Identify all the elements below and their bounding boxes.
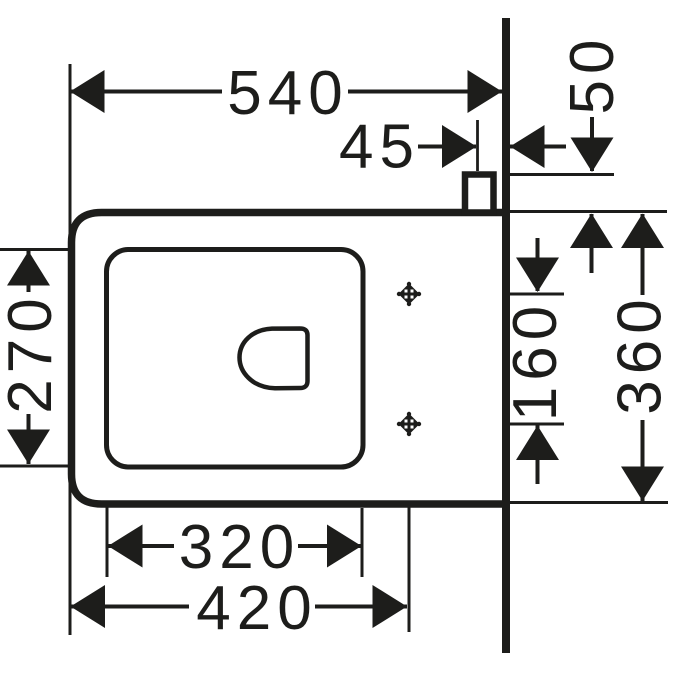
dimension line 360: [641, 214, 645, 501]
bowl outline: [72, 213, 507, 505]
dimension line 50 upper tail: [590, 114, 594, 171]
arrow 540 right: [468, 70, 503, 113]
svg-text:160: 160: [501, 300, 570, 421]
label 45: [334, 113, 420, 182]
svg-text:50: 50: [558, 34, 627, 115]
arrow 160 down: [516, 258, 559, 293]
arrow 270 down: [7, 430, 50, 465]
fixing hole bottom: [397, 412, 421, 436]
dimension line 270: [27, 251, 31, 464]
label 160: [501, 300, 570, 422]
dimension line 45 right tail: [510, 145, 566, 149]
label 420: [189, 574, 318, 643]
extension line bowl top level right: [506, 210, 667, 213]
label 360: [606, 293, 675, 420]
extension line bowl bottom level right: [506, 501, 668, 504]
extension line 270 top: [0, 248, 73, 251]
label 270: [0, 292, 65, 414]
arrow 50 down: [571, 138, 614, 173]
extension line 320 right: [361, 508, 364, 577]
label 540: [222, 59, 349, 128]
label 50: [558, 34, 627, 117]
extension line hole top: [506, 293, 564, 296]
arrow 50 up: [570, 214, 613, 249]
svg-text:360: 360: [606, 293, 675, 414]
arrow 360 down: [621, 467, 664, 502]
extension line 45: [476, 120, 479, 171]
arrow 160 up: [516, 426, 559, 461]
wall line: [502, 18, 510, 653]
dimension line 420: [71, 605, 408, 609]
svg-text:270: 270: [0, 292, 65, 413]
inlet box: [465, 175, 494, 213]
dimension line 160 lower tail: [536, 425, 540, 484]
arrow 420 left: [71, 585, 106, 628]
extension line 320 left: [106, 506, 109, 577]
extension line 420 right: [408, 506, 411, 632]
inner rim: [107, 250, 364, 468]
arrow 540 left: [70, 70, 105, 113]
arrow 45 left: [442, 125, 477, 168]
arrow 320 right: [327, 525, 362, 568]
label 320: [174, 513, 300, 582]
svg-text:420: 420: [196, 574, 317, 643]
arrow 270 up: [7, 251, 50, 286]
extension line 50 (inlet top level): [505, 173, 614, 176]
arrow 45 right: [510, 125, 545, 168]
extension line 270 bottom: [0, 465, 73, 468]
dimension line 160 upper tail: [536, 238, 540, 291]
dimension line 540: [70, 90, 502, 94]
fixing hole top: [397, 282, 421, 306]
svg-text:540: 540: [227, 59, 348, 128]
arrow 420 right: [373, 585, 408, 628]
dimension line 45 left tail: [412, 145, 476, 149]
arrow 320 left: [108, 525, 143, 568]
extension line hole bottom: [506, 423, 564, 426]
drain outline: [240, 329, 308, 389]
extension line left (540/420): [69, 64, 72, 635]
svg-text:320: 320: [179, 513, 300, 582]
svg-text:45: 45: [339, 113, 420, 182]
arrow 360 up: [621, 214, 664, 249]
dimension line 50 lower tail: [590, 214, 594, 273]
dimension line 320: [108, 544, 362, 548]
